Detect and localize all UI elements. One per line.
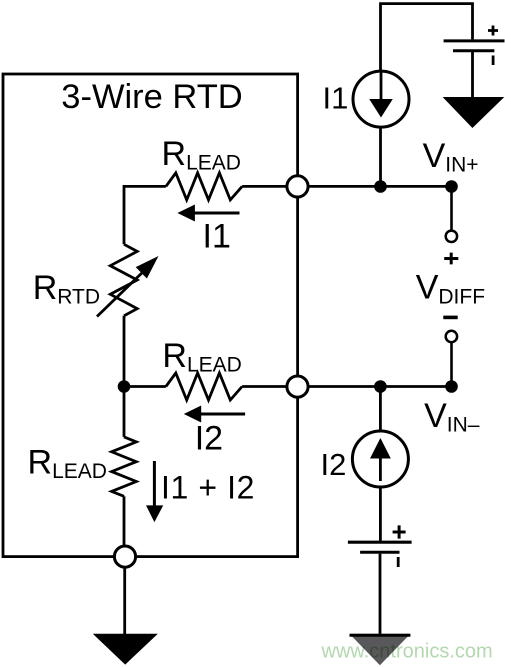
wire net1 left lead and corner down to RTD: [124, 186, 166, 244]
wire net1 node circle to VIN+: [309, 185, 452, 188]
VDIFF plus terminal circle: [446, 231, 457, 242]
wire RLEAD3 to bottom node circle: [123, 496, 126, 545]
current arrow I1 shaft: [190, 212, 240, 215]
node circle bottom on box edge: [114, 546, 135, 567]
svg-text:I1 + I2: I1 + I2: [161, 470, 255, 506]
wire RRTD bottom to net2 junction: [123, 316, 126, 387]
wire net2 down to I2 source: [379, 387, 382, 431]
current arrow I1 head: [177, 205, 195, 222]
current source I1 circle: [353, 71, 409, 127]
I1 arrow shaft: [380, 72, 383, 101]
current arrow I2 shaft: [196, 413, 245, 416]
current arrow I1+I2 head: [146, 505, 163, 522]
ground symbol bottom-left: [93, 634, 158, 665]
wire top loop I1 to battery V1: [381, 4, 473, 71]
RTD enclosure box: [3, 74, 298, 557]
svg-text:I2: I2: [195, 419, 223, 457]
junction dot net1 at VIN+: [445, 180, 458, 193]
node circle net1 on box edge: [287, 176, 308, 197]
RRTD variable arrow head: [136, 256, 159, 279]
I1 arrow head down: [369, 99, 393, 118]
resistor RRTD zigzag: [110, 244, 137, 315]
wire VDIFF minus terminal down to net2: [450, 342, 453, 386]
wire net2 junction down to RLEAD3: [123, 387, 126, 437]
wire net2 zigzag to node circle: [242, 385, 286, 388]
battery V1 plus sign: [488, 26, 498, 36]
battery V1 short plate: [453, 49, 494, 52]
wire battery V2 to ground: [379, 554, 382, 635]
junction dot net2 at I2: [374, 380, 387, 393]
battery V2 plus sign: [393, 525, 406, 538]
wire net2 left lead: [124, 385, 166, 388]
ground symbol bottom-right gray: [350, 634, 411, 666]
junction dot net2 at VIN-: [445, 380, 458, 393]
svg-text:I1: I1: [203, 217, 231, 255]
ground symbol bottom-right top bar: [350, 634, 411, 637]
battery V1 long plate: [444, 39, 505, 42]
VDIFF minus sign: [443, 316, 457, 320]
current arrow I1+I2 shaft: [153, 461, 156, 506]
battery V2 short plate: [360, 551, 399, 554]
resistor RLEAD1 zigzag: [166, 173, 242, 200]
junction dot net2 left: [118, 380, 131, 393]
battery V1 minus tick: [492, 56, 495, 66]
wire bottom node circle to ground: [123, 568, 126, 634]
wire net2 node circle to VIN-: [309, 385, 452, 388]
I2 arrow shaft: [379, 457, 382, 481]
svg-text:3-Wire RTD: 3-Wire RTD: [61, 78, 242, 116]
VDIFF minus terminal circle: [446, 331, 457, 342]
resistor RLEAD2 zigzag: [166, 373, 242, 400]
current arrow I2 head: [184, 406, 201, 423]
junction dot net1 at I1: [374, 180, 387, 193]
current source I2 circle: [352, 431, 408, 487]
RRTD variable arrow shaft: [97, 267, 148, 317]
resistor RLEAD3 zigzag vertical: [112, 437, 137, 496]
wire battery V1 to ground: [471, 52, 474, 97]
svg-text:www.cntronics.com: www.cntronics.com: [321, 641, 493, 663]
wire I2 source to battery V2: [379, 487, 382, 541]
ground symbol top-right: [443, 97, 505, 128]
I2 arrow head up: [370, 438, 391, 459]
wire VIN+ down to VDIFF plus terminal: [450, 186, 453, 230]
battery V2 minus tick: [397, 557, 400, 567]
wire net1 zigzag to node circle: [242, 185, 286, 188]
battery V2 long plate: [348, 541, 412, 544]
svg-text:I2: I2: [321, 447, 347, 482]
VDIFF plus sign: [444, 253, 458, 265]
node circle net2 on box edge: [287, 376, 308, 397]
wire I1 source to net1: [379, 127, 382, 186]
svg-text:I1: I1: [323, 81, 349, 116]
